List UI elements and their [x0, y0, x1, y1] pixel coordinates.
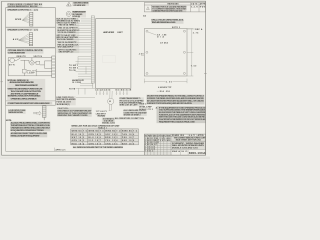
grommet symbol	[66, 11, 71, 16]
remote circuit wires	[8, 58, 52, 76]
box 3 rule	[6, 100, 56, 102]
hole leader note	[148, 32, 157, 35]
title block outer frame	[144, 134, 205, 155]
wire group label 3	[57, 34, 79, 41]
leader to gnd terminal	[76, 96, 95, 98]
wire group label 1	[57, 17, 81, 26]
feeder wires to motor	[76, 88, 113, 98]
svg-text:AUX: AUX	[13, 38, 19, 41]
revision delta symbol	[147, 7, 150, 10]
page edge shading bottom	[0, 157, 210, 159]
wire fan to J2	[19, 34, 30, 44]
wire group label 2	[58, 27, 81, 34]
motor stub wires	[109, 104, 112, 110]
bottom dim line	[144, 79, 187, 84]
hole H1	[146, 30, 148, 32]
parts grid rows	[144, 137, 171, 152]
wire table frame	[71, 129, 139, 145]
leader wires to P1	[74, 19, 91, 52]
title row A rule	[171, 135, 206, 137]
inner margin border left	[5, 105, 7, 151]
svg-text:1A: 1A	[143, 15, 147, 18]
wire table main columns	[88, 129, 121, 145]
switch S1	[36, 61, 40, 64]
svg-text:UNIT: UNIT	[117, 32, 123, 34]
svg-text:3.75: 3.75	[193, 33, 199, 35]
harness jog wire	[80, 84, 93, 86]
hole H3	[146, 72, 148, 74]
connector J2 body	[29, 33, 32, 46]
connector J1 body	[30, 12, 33, 26]
flag note triangle	[67, 2, 72, 6]
svg-text:2X DIA: 2X DIA	[160, 41, 168, 44]
resistor R5	[23, 69, 27, 73]
title bottom rule	[171, 149, 206, 151]
svg-text:NOTE 3: NOTE 3	[172, 27, 180, 29]
legend box 1 frame	[6, 8, 56, 28]
wire group label 4	[58, 41, 80, 48]
terminal T6	[119, 91, 121, 93]
inner margin border bottom	[6, 150, 145, 152]
connector J4 body	[42, 106, 46, 120]
svg-text:AMPLIFIER: AMPLIFIER	[103, 31, 114, 34]
G-TOPLEFT	[8, 3, 43, 8]
terminal T4	[106, 91, 108, 93]
right dim line	[187, 29, 193, 76]
meter M1	[10, 58, 15, 63]
terminal arrowheads	[96, 94, 128, 95]
svg-text:TO CB: TO CB	[69, 70, 76, 72]
parts grid columns	[148, 134, 168, 155]
paper background	[0, 0, 210, 159]
G-CENTER	[57, 2, 148, 125]
svg-text:6-4-71: 6-4-71	[191, 6, 198, 9]
G-BOTTOM	[6, 105, 206, 155]
plug symbol P2	[36, 111, 41, 115]
revision table frame	[144, 3, 205, 12]
wires into P1 lower	[76, 57, 92, 80]
svg-text:GROUNDED: GROUNDED	[97, 116, 106, 118]
svg-text:RWS: RWS	[200, 7, 206, 9]
svg-text:18 COND: 18 COND	[72, 82, 82, 84]
svg-text:TO TB: TO TB	[69, 88, 76, 90]
zone tick right	[204, 73, 207, 75]
title block left/right divider	[170, 134, 172, 155]
enclosure outline	[96, 19, 131, 89]
legend box 2 frame	[6, 27, 56, 47]
terminal T2	[99, 91, 101, 93]
svg-text:REF A: REF A	[195, 28, 203, 31]
hole H4	[183, 72, 185, 74]
title rule	[171, 140, 206, 142]
revision sym column	[150, 5, 152, 12]
scale cell	[180, 150, 182, 156]
svg-text:7.50: 7.50	[191, 66, 197, 68]
pilot lamp DS1	[30, 61, 34, 65]
zone tick left	[0, 81, 3, 83]
G-RIGHTMID	[138, 27, 206, 123]
terminal T3	[103, 91, 105, 93]
hole H2	[183, 30, 185, 32]
svg-text:REVISIONS: REVISIONS	[168, 4, 180, 6]
svg-text:SH 1/1: SH 1/1	[181, 151, 187, 153]
revision date column	[190, 3, 192, 12]
revision table header rule	[144, 4, 205, 6]
terminal T5	[116, 91, 118, 93]
P1 drop wire to bus	[92, 83, 94, 88]
svg-text:DIA .250: DIA .250	[160, 90, 170, 93]
enclosure faint inner detail	[103, 56, 116, 63]
svg-text:SPKR: SPKR	[15, 19, 22, 21]
svg-text:SWITCH: SWITCH	[34, 56, 43, 58]
svg-text:APPD 6-71: APPD 6-71	[56, 149, 66, 152]
terminal T7	[123, 91, 125, 93]
svg-text:MTR: MTR	[9, 64, 15, 66]
wire fan to J1	[22, 13, 29, 23]
hole H5	[183, 51, 185, 53]
hole H6	[146, 51, 148, 53]
mounting panel outline	[144, 29, 187, 76]
connector J3 body	[52, 56, 55, 78]
terminal T1	[96, 91, 98, 93]
G-LEFTBOXES	[6, 8, 56, 106]
wire group label 5	[59, 48, 78, 53]
plug wires	[33, 113, 36, 114]
top ref leader	[187, 28, 195, 30]
svg-text:REMOTE: REMOTE	[17, 56, 27, 58]
motor B1	[108, 98, 114, 104]
wire table rows	[71, 132, 139, 142]
svg-text:LAMP: LAMP	[28, 72, 36, 75]
drawing border frame	[2, 1, 206, 155]
svg-text:6.00: 6.00	[166, 82, 172, 84]
G-RIGHTTOP	[143, 3, 206, 25]
connector P1 strip	[91, 16, 94, 83]
svg-text:4 HOLES TYP: 4 HOLES TYP	[158, 86, 172, 89]
wire table sub columns	[82, 129, 132, 145]
scan texture shading overlay	[7, 2, 206, 155]
page edge shading left	[0, 0, 2, 159]
terminal T8	[126, 91, 128, 93]
margin tick	[53, 148, 55, 152]
legend box 3 frame	[6, 48, 56, 105]
